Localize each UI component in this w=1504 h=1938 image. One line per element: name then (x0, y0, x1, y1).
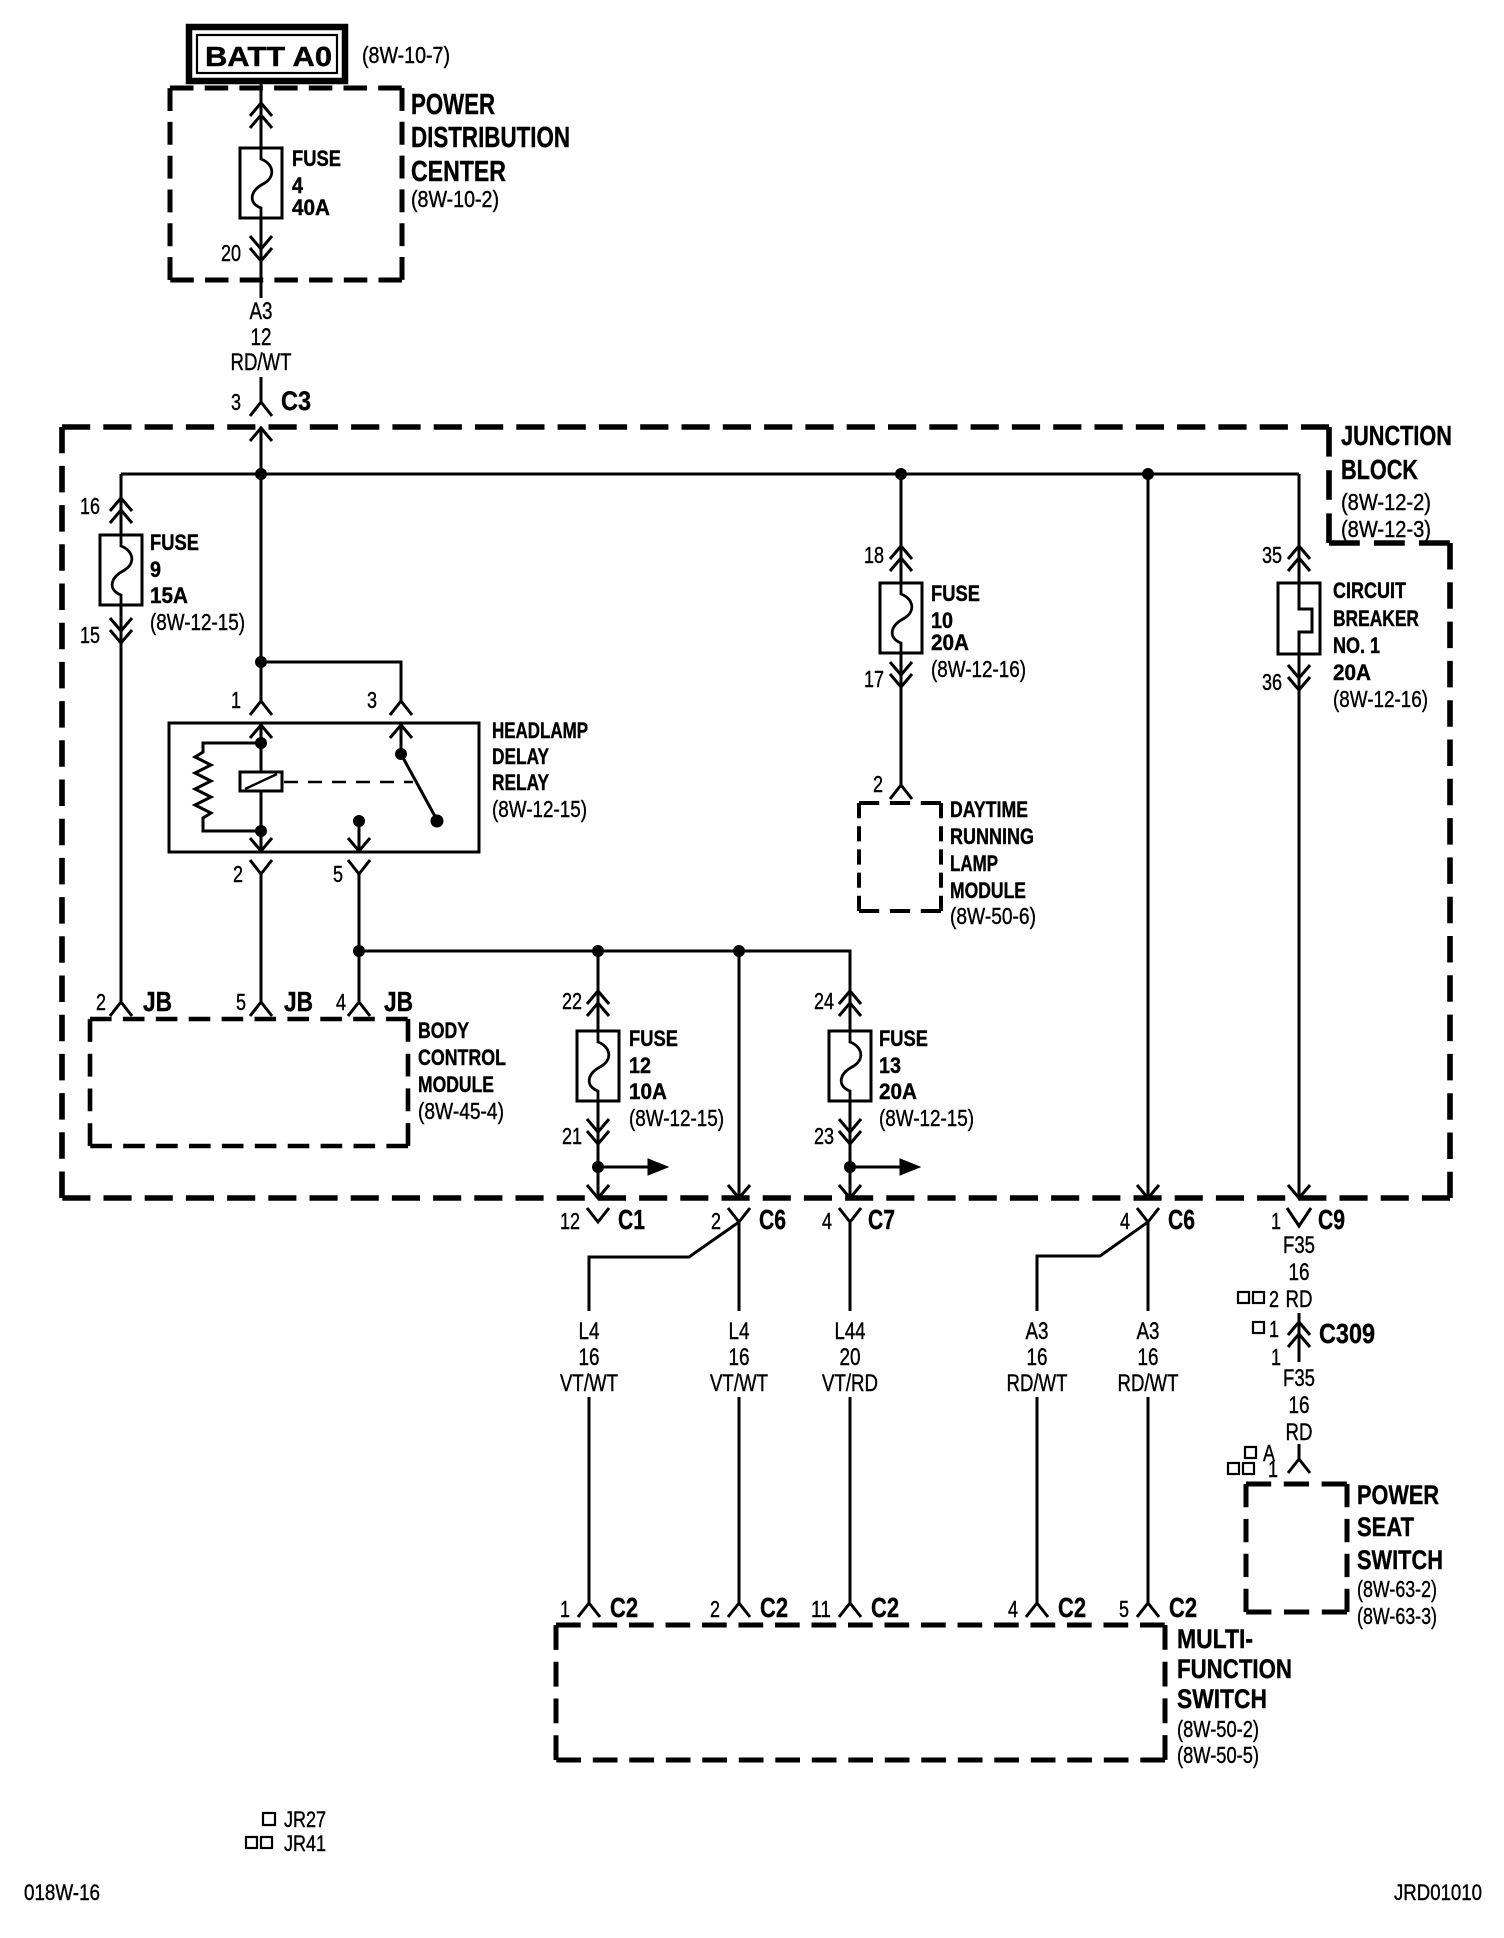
pin 20 label (221, 240, 241, 266)
svg-text:C2: C2 (1058, 1592, 1086, 1623)
wire fuse 12 to connector C1 (597, 1101, 600, 1198)
daytime running lamp module dashed box (859, 803, 941, 911)
svg-text:JRD01010: JRD01010 (1394, 1880, 1482, 1905)
daytime running lamp module pin 2 connector (873, 771, 912, 799)
svg-text:13: 13 (879, 1053, 901, 1078)
svg-text:(8W-12-15): (8W-12-15) (492, 796, 587, 822)
svg-text:F35: F35 (1283, 1365, 1315, 1392)
svg-text:CONTROL: CONTROL (418, 1045, 506, 1070)
connector C2 pin 4 (1008, 1592, 1086, 1623)
svg-text:2: 2 (873, 771, 883, 797)
svg-text:DAYTIME: DAYTIME (950, 797, 1028, 822)
fuse 4 label (292, 146, 341, 220)
wire branch to relay pin 3 (261, 662, 401, 701)
PDC feed in-line connector chevrons (250, 103, 272, 128)
svg-text:HEADLAMP: HEADLAMP (492, 718, 588, 743)
svg-text:(8W-12-3): (8W-12-3) (1341, 516, 1431, 542)
pin 21 label (562, 1123, 582, 1149)
svg-text:1: 1 (1271, 1344, 1281, 1370)
circuit breaker label (1333, 578, 1428, 712)
svg-text:SWITCH: SWITCH (1357, 1545, 1443, 1575)
svg-text:21: 21 (562, 1123, 582, 1149)
svg-text:40A: 40A (292, 195, 330, 220)
svg-text:9: 9 (150, 557, 161, 582)
fuse 9 label (150, 530, 245, 635)
svg-text:C1: C1 (618, 1204, 645, 1235)
wire L44 from C7 pin 4 (849, 1222, 852, 1311)
pin 35 label (1262, 542, 1282, 568)
svg-text:DELAY: DELAY (492, 744, 549, 769)
svg-text:L4: L4 (579, 1318, 600, 1345)
junction dot bus/C6 branch (1142, 468, 1154, 480)
svg-text:L4: L4 (729, 1318, 750, 1345)
svg-text:A3: A3 (1137, 1318, 1160, 1345)
multi-function switch label (1177, 1624, 1292, 1768)
svg-text:(8W-12-15): (8W-12-15) (629, 1105, 724, 1131)
svg-text:C2: C2 (760, 1592, 788, 1623)
svg-text:FUNCTION: FUNCTION (1177, 1654, 1292, 1684)
relay pin 1 connector (250, 701, 272, 738)
body control module pin 2 JB connector (96, 986, 172, 1017)
svg-text:C6: C6 (1168, 1204, 1195, 1235)
connector C2 pin 2 (710, 1592, 788, 1623)
junction block label (1341, 420, 1452, 542)
headlamp delay relay box (169, 723, 479, 852)
svg-text:(8W-50-5): (8W-50-5) (1177, 1742, 1259, 1768)
relay coil to switch dashed link (284, 781, 413, 784)
svg-text:RUNNING: RUNNING (950, 824, 1034, 849)
svg-text:17: 17 (864, 666, 884, 692)
svg-text:12: 12 (251, 324, 272, 351)
body control module pin 4 JB connector (336, 986, 413, 1017)
fuse 13 (20A) (829, 1031, 871, 1102)
svg-text:JB: JB (284, 986, 313, 1017)
relay pin 3 connector (390, 701, 412, 738)
wire label F35 16 RD upper (1283, 1232, 1315, 1313)
svg-text:JR41: JR41 (284, 1831, 326, 1856)
svg-text:C6: C6 (759, 1204, 786, 1235)
relay pin 2 out chevron (250, 838, 272, 851)
svg-text:(8W-12-15): (8W-12-15) (879, 1105, 974, 1131)
relay pin 1 label (231, 687, 241, 713)
svg-text:BREAKER: BREAKER (1333, 606, 1419, 631)
fuse 13 pin 23 chevrons (839, 1119, 861, 1144)
wire bus to circuit breaker (1298, 474, 1301, 583)
headlamp delay relay label (492, 718, 588, 822)
pin 18 label (864, 542, 884, 568)
circuit breaker no. 1 (20A) (1278, 583, 1320, 654)
svg-text:5: 5 (333, 861, 343, 887)
wire fuse 13 to connector C7 (849, 1101, 852, 1198)
svg-text:10A: 10A (629, 1079, 667, 1104)
svg-text:C9: C9 (1318, 1204, 1345, 1235)
fuse 13 label (879, 1026, 974, 1131)
svg-text:3: 3 (231, 389, 241, 415)
pin 22 label (562, 988, 582, 1014)
wire column 1 to multi-function switch (588, 1397, 591, 1603)
wire A3 into junction block (260, 377, 263, 402)
wire column 4 to multi-function switch (1036, 1397, 1039, 1603)
connector C1 pin 12 (560, 1185, 645, 1235)
power seat switch pin 1 connector (1288, 1444, 1310, 1473)
svg-text:MULTI-: MULTI- (1177, 1624, 1253, 1654)
wire column 2 to multi-function switch (738, 1397, 741, 1603)
svg-text:(8W-12-16): (8W-12-16) (1333, 686, 1428, 712)
wire circuit breaker to connector C9 (1298, 654, 1301, 1198)
svg-text:A3: A3 (250, 298, 273, 325)
svg-text:20: 20 (221, 240, 241, 266)
svg-text:1: 1 (1269, 1316, 1279, 1342)
fuse 12 (10A) (577, 1031, 619, 1102)
svg-text:(8W-63-2): (8W-63-2) (1357, 1576, 1437, 1602)
svg-text:(8W-12-2): (8W-12-2) (1341, 489, 1431, 515)
svg-text:16: 16 (1289, 1259, 1310, 1286)
fuse 9 (15A) (100, 535, 142, 606)
svg-text:16: 16 (729, 1344, 750, 1371)
svg-text:NO. 1: NO. 1 (1333, 633, 1380, 658)
wire column 5 to multi-function switch (1147, 1397, 1150, 1603)
pin 16 label (80, 493, 100, 519)
svg-text:VT/RD: VT/RD (822, 1370, 878, 1397)
relay pin 2 connector (250, 860, 272, 874)
relay pin 2 label (233, 861, 243, 887)
svg-text:018W-16: 018W-16 (24, 1880, 100, 1905)
svg-text:C2: C2 (610, 1592, 638, 1623)
fuse 10 (20A) (880, 583, 922, 654)
circuit breaker pin 35 chevrons (1288, 546, 1310, 571)
splice boxes pin 1 power seat (1228, 1456, 1278, 1482)
svg-text:BATT A0: BATT A0 (205, 41, 332, 72)
svg-text:(8W-50-2): (8W-50-2) (1177, 1716, 1259, 1742)
wire branch to connector C6 pin 2 (738, 951, 741, 1198)
svg-text:(8W-50-6): (8W-50-6) (950, 903, 1036, 929)
svg-text:36: 36 (1262, 669, 1282, 695)
svg-text:5: 5 (1119, 1596, 1129, 1622)
fuse 10 pin 17 chevrons (890, 662, 912, 687)
svg-text:BLOCK: BLOCK (1341, 454, 1418, 485)
svg-text:DISTRIBUTION: DISTRIBUTION (411, 122, 570, 154)
wire from BATT A0 into PDC (260, 81, 263, 148)
svg-text:C309: C309 (1319, 1318, 1375, 1349)
relay pin 3 label (367, 687, 377, 713)
svg-text:RD/WT: RD/WT (231, 349, 292, 376)
svg-text:JB: JB (143, 986, 172, 1017)
svg-text:(8W-12-16): (8W-12-16) (931, 656, 1026, 682)
svg-text:12: 12 (560, 1208, 580, 1234)
svg-text:1: 1 (231, 687, 241, 713)
power distribution center label (411, 89, 570, 212)
wire fuse 10 to daytime running lamp module (900, 653, 903, 785)
wire label A3 16 RD/WT column 4 (1007, 1318, 1068, 1397)
svg-text:20A: 20A (879, 1079, 917, 1104)
wire A3 12 RD/WT label (231, 298, 292, 376)
pin 23 label (814, 1123, 834, 1149)
svg-text:CENTER: CENTER (411, 156, 506, 188)
svg-text:16: 16 (1138, 1344, 1159, 1371)
svg-text:MODULE: MODULE (950, 878, 1026, 903)
pin 24 label (814, 988, 834, 1014)
svg-text:FUSE: FUSE (931, 581, 980, 606)
junction dot relay branch (255, 656, 267, 668)
svg-text:FUSE: FUSE (879, 1026, 928, 1051)
connector C9 pin 1 (1271, 1185, 1345, 1235)
svg-text:3: 3 (367, 687, 377, 713)
relay resistor (195, 743, 261, 831)
fuse 12 pin 22 chevrons (587, 991, 609, 1016)
splice boxes pin 2 (1238, 1286, 1279, 1312)
svg-text:12: 12 (629, 1053, 651, 1078)
svg-text:2: 2 (1269, 1286, 1279, 1312)
junction dot bus/main feed (255, 468, 267, 480)
body control module dashed box (90, 1019, 408, 1146)
svg-text:4: 4 (822, 1208, 832, 1234)
pin 1 label below C309 (1271, 1344, 1281, 1370)
wire bus to connector C6 pin 4 (1147, 474, 1150, 1198)
connector BATT A0 feed box (189, 27, 345, 81)
splice box pin 1 (1253, 1316, 1279, 1342)
junction dot C6 pin 2 branch (733, 945, 745, 957)
svg-text:RD/WT: RD/WT (1007, 1370, 1068, 1397)
wire label L4 16 VT/WT column 1 (560, 1318, 618, 1397)
svg-text:16: 16 (1027, 1344, 1048, 1371)
wire label F35 16 RD lower (1283, 1365, 1315, 1446)
power seat switch dashed box (1246, 1484, 1347, 1612)
svg-text:20A: 20A (931, 630, 969, 655)
junction dot pin5/JB4 (353, 945, 365, 957)
pin 36 label (1262, 669, 1282, 695)
svg-text:1: 1 (560, 1596, 570, 1622)
wire L4 from C6 pin 2 straight down (738, 1222, 741, 1311)
wire bus to fuse 10 (900, 474, 903, 583)
svg-text:VT/WT: VT/WT (560, 1370, 618, 1397)
connector C2 pin 11 (811, 1592, 899, 1623)
power seat switch label (1357, 1480, 1443, 1629)
svg-text:20: 20 (840, 1344, 861, 1371)
connector C7 pin 4 (822, 1185, 895, 1235)
svg-text:RD: RD (1286, 1286, 1313, 1313)
svg-text:20A: 20A (1333, 660, 1371, 685)
splice box pin A (1245, 1440, 1276, 1466)
pin 17 label (864, 666, 884, 692)
svg-text:C2: C2 (871, 1592, 899, 1623)
junction dot bus/fuse10 branch (895, 468, 907, 480)
svg-text:SWITCH: SWITCH (1177, 1684, 1267, 1714)
connector C6 pin 4 (1120, 1185, 1195, 1235)
wire relay pin 5 down (358, 874, 361, 951)
svg-text:2: 2 (233, 861, 243, 887)
svg-text:RD: RD (1286, 1419, 1313, 1446)
pin 15 label (80, 622, 100, 648)
fuse 10 label (931, 581, 1026, 682)
svg-text:18: 18 (864, 542, 884, 568)
svg-text:FUSE: FUSE (629, 1026, 678, 1051)
PDC pin 20 out chevrons (250, 236, 272, 261)
svg-text:JUNCTION: JUNCTION (1341, 420, 1452, 451)
wire label L44 20 VT/RD column 3 (822, 1318, 878, 1397)
svg-text:POWER: POWER (1357, 1480, 1439, 1510)
relay coil feed wire pin 1 (260, 723, 263, 852)
relay contact pin 5 (348, 815, 370, 852)
svg-text:23: 23 (814, 1123, 834, 1149)
circuit breaker pin 36 chevrons (1288, 665, 1310, 690)
wire fuse 9 to body control module (120, 605, 123, 1002)
fuse 12 label (629, 1026, 724, 1131)
svg-text:POWER: POWER (411, 89, 495, 121)
junction dot fuse 12 branch (592, 945, 604, 957)
fuse 13 pin 24 chevrons (839, 991, 861, 1016)
fuse 12 pin 21 chevrons (587, 1119, 609, 1144)
wire bus to fuse 9 (120, 474, 123, 535)
wire L4 from C6 pin 2 to column 1 (589, 1222, 739, 1311)
connector C2 pin 1 (560, 1592, 638, 1623)
wire relay pin 5 branch bus (359, 951, 850, 1031)
wire main feed inside junction block (260, 427, 263, 701)
daytime running lamp module label (950, 797, 1036, 929)
splice arrow right from fuse 13 (850, 1159, 920, 1175)
connector C309 (1288, 1313, 1375, 1362)
wire to body control module pin 4 (358, 951, 361, 1002)
svg-text:C3: C3 (281, 386, 311, 416)
body control module label (418, 1018, 506, 1124)
svg-text:1: 1 (1268, 1456, 1278, 1482)
svg-text:2: 2 (711, 1208, 721, 1234)
svg-text:16: 16 (80, 493, 100, 519)
svg-text:C2: C2 (1169, 1592, 1197, 1623)
junction block power bus wire (121, 473, 1299, 476)
svg-text:(8W-45-4): (8W-45-4) (418, 1098, 504, 1124)
relay switch common wire pin 3 (400, 723, 403, 754)
wire A3 from C6 pin 4 to column 4 (1037, 1222, 1148, 1311)
svg-text:4: 4 (1120, 1208, 1130, 1234)
svg-text:FUSE: FUSE (150, 530, 199, 555)
svg-text:35: 35 (1262, 542, 1282, 568)
svg-text:16: 16 (579, 1344, 600, 1371)
body control module pin 5 JB connector (236, 986, 313, 1017)
svg-text:LAMP: LAMP (950, 851, 998, 876)
svg-text:RD/WT: RD/WT (1118, 1370, 1179, 1397)
fuse 9 pin 16 chevrons (110, 498, 132, 523)
svg-text:11: 11 (811, 1596, 831, 1622)
connector C6 pin 2 (711, 1185, 786, 1235)
svg-text:(8W-12-15): (8W-12-15) (150, 609, 245, 635)
svg-text:F35: F35 (1283, 1232, 1315, 1259)
svg-text:5: 5 (236, 989, 246, 1015)
wire column 3 to multi-function switch (849, 1397, 852, 1603)
fuse 4 (40A) in PDC (240, 148, 282, 219)
svg-text:2: 2 (96, 989, 106, 1015)
svg-text:(8W-10-7): (8W-10-7) (362, 42, 450, 68)
relay switch blade (395, 748, 444, 828)
drawing number JRD01010 (1394, 1880, 1482, 1905)
fuse 10 pin 18 chevrons (890, 546, 912, 571)
svg-text:4: 4 (336, 989, 346, 1015)
svg-text:15: 15 (80, 622, 100, 648)
junction block dashed border (62, 427, 1450, 1198)
svg-text:(8W-10-2): (8W-10-2) (411, 186, 499, 212)
svg-text:16: 16 (1289, 1392, 1310, 1419)
svg-text:C7: C7 (868, 1204, 895, 1235)
svg-text:A3: A3 (1026, 1318, 1049, 1345)
svg-text:24: 24 (814, 988, 834, 1014)
junction dot resistor bottom (255, 825, 267, 837)
svg-text:22: 22 (562, 988, 582, 1014)
wire A3 from C6 pin 4 straight down (1147, 1222, 1150, 1311)
svg-text:2: 2 (710, 1596, 720, 1622)
svg-text:1: 1 (1271, 1208, 1281, 1234)
power distribution center dashed box (170, 88, 402, 280)
svg-text:L44: L44 (835, 1318, 866, 1345)
junction dot resistor top (255, 737, 267, 749)
relay coil (240, 772, 282, 791)
splice JR41 (246, 1831, 326, 1856)
wire label A3 16 RD/WT column 5 (1118, 1318, 1179, 1397)
svg-text:FUSE: FUSE (292, 146, 341, 171)
reference (8W-10-7) (362, 42, 450, 68)
splice JR27 (263, 1807, 326, 1832)
wire label L4 16 VT/WT column 2 (710, 1318, 768, 1397)
connector C3 pin 3 (231, 386, 311, 441)
sheet number 018W-16 (24, 1880, 100, 1905)
relay pin 5 connector (348, 860, 370, 874)
svg-text:15A: 15A (150, 583, 188, 608)
fuse 9 pin 15 chevrons (110, 618, 132, 643)
splice arrow right from fuse 12 (598, 1159, 668, 1175)
connector C2 pin 5 (1119, 1592, 1197, 1623)
svg-text:CIRCUIT: CIRCUIT (1333, 578, 1406, 603)
wire branch to fuse 12 (597, 951, 600, 1031)
svg-text:RELAY: RELAY (492, 770, 549, 795)
multi-function switch dashed box (556, 1625, 1165, 1760)
junction dot fuse 12 splice (592, 1161, 604, 1173)
svg-text:4: 4 (1008, 1596, 1018, 1622)
svg-text:VT/WT: VT/WT (710, 1370, 768, 1397)
wire fuse 4 to PDC pin 20 (260, 218, 263, 298)
svg-text:SEAT: SEAT (1357, 1512, 1414, 1542)
svg-text:MODULE: MODULE (418, 1072, 494, 1097)
svg-text:JR27: JR27 (284, 1807, 326, 1832)
svg-text:(8W-63-3): (8W-63-3) (1357, 1603, 1437, 1629)
svg-text:BODY: BODY (418, 1018, 469, 1043)
svg-text:JB: JB (384, 986, 413, 1017)
junction dot fuse 13 splice (844, 1161, 856, 1173)
relay pin 5 label (333, 861, 343, 887)
wire relay pin 2 to body control module (260, 874, 263, 1002)
